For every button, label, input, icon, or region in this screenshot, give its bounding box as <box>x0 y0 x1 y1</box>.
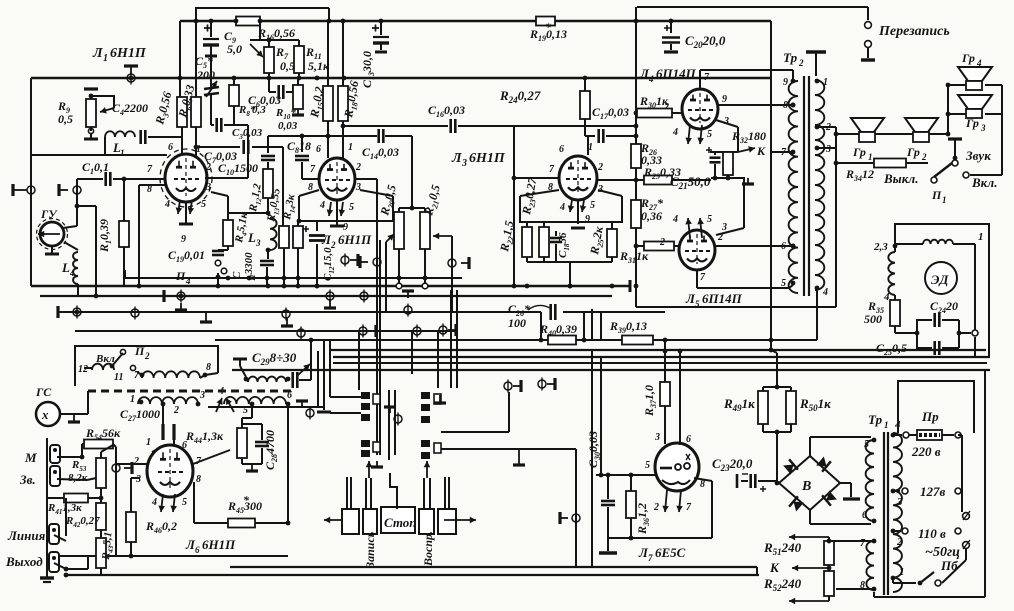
oscillator right verticals <box>317 351 319 407</box>
wire x665 to R37 <box>664 340 666 382</box>
svg-text:3: 3 <box>461 158 467 169</box>
wire y126 runs to x636 <box>514 125 636 127</box>
svg-text:C42200: C42200 <box>112 101 148 117</box>
resistor R3 0,56 <box>179 21 181 97</box>
svg-text:*: * <box>545 20 552 34</box>
svg-text:6Е5С: 6Е5С <box>655 545 686 560</box>
speaker Gr3 <box>958 95 992 109</box>
svg-text:4: 4 <box>672 214 678 225</box>
resistor R12 1,2 <box>267 162 269 169</box>
svg-text:0,3: 0,3 <box>252 104 266 116</box>
svg-text:2,3: 2,3 <box>873 241 888 253</box>
svg-text:4: 4 <box>559 202 565 213</box>
wires from contacts to right <box>441 431 509 433</box>
svg-text:4: 4 <box>648 74 654 84</box>
svg-text:L: L <box>61 260 70 275</box>
speaker Gr1 <box>851 118 884 132</box>
cathode arrows L6 <box>161 494 163 512</box>
erase head GS <box>36 402 60 426</box>
wire L5 grid R31 <box>678 245 680 247</box>
resistor R50 1k <box>786 391 796 424</box>
speaker Gr4 <box>958 67 992 81</box>
wire Out jack wire <box>66 568 88 570</box>
tap 4 fuse Pr <box>891 433 896 438</box>
svg-text:5,0: 5,0 <box>227 42 242 56</box>
wire x514 down <box>513 178 515 286</box>
cathode arrows L3 <box>570 200 572 212</box>
svg-text:6: 6 <box>781 241 786 252</box>
bus junction dots <box>137 284 142 289</box>
motor box <box>895 224 989 357</box>
wire plate wire y178 to L3 <box>514 177 558 179</box>
svg-text:4: 4 <box>218 386 224 397</box>
resistor R25 2k <box>607 229 617 257</box>
motor winding horizontal <box>923 240 953 244</box>
node rail junctions <box>327 19 332 24</box>
resistor R41 1,3k <box>64 494 88 503</box>
jack Perezapis <box>865 22 872 29</box>
tube Л3 6Н1П <box>559 156 597 200</box>
resistor R23 0,27 <box>539 227 549 257</box>
tube Л6 6Н1П <box>147 445 193 497</box>
svg-text:C818: C818 <box>287 139 311 155</box>
motor ED circle <box>925 262 957 294</box>
svg-text:2: 2 <box>798 58 804 68</box>
resistor R36 1,2 <box>630 475 632 491</box>
svg-text:8: 8 <box>783 100 788 111</box>
svg-text:3: 3 <box>355 182 361 193</box>
Tr1 winding 5-6 <box>866 440 874 521</box>
resistor R40 0,39 <box>548 336 576 345</box>
tube Л1 6Н1П <box>165 154 207 202</box>
resistor R10 0,03 <box>297 78 299 85</box>
oscillator box <box>75 346 218 386</box>
wire bottom bus y575 <box>66 574 759 576</box>
pin9 stem L2 <box>336 200 338 226</box>
svg-text:5: 5 <box>349 202 354 213</box>
wire pin5 L7 <box>596 474 655 476</box>
capacitor C8 18 <box>301 136 303 152</box>
resistor R46 0,2 <box>131 477 140 479</box>
wire R54 right riser x116 <box>113 444 116 447</box>
switch bus verticals <box>376 179 378 455</box>
svg-text:4: 4 <box>185 276 191 286</box>
wire grid network R3 bottom <box>181 127 183 157</box>
capacitor C18 56 <box>555 231 557 236</box>
svg-text:6: 6 <box>168 142 173 153</box>
svg-text:1: 1 <box>146 437 151 448</box>
svg-text:9: 9 <box>783 77 788 88</box>
wire x288 up to tap6 <box>287 404 289 523</box>
svg-text:2: 2 <box>205 162 211 173</box>
bridge output wires <box>809 437 811 456</box>
pin9 stem L1 <box>185 202 187 224</box>
svg-text:5: 5 <box>201 199 206 210</box>
capacitor C16 0,03 <box>413 125 448 127</box>
wire L6 pin2 left <box>116 463 147 465</box>
svg-text:Л: Л <box>92 46 103 61</box>
wire Line jack riser <box>65 498 67 536</box>
svg-text:C1330,0: C1330,0 <box>360 51 376 88</box>
wire x680 down <box>678 349 683 354</box>
capacitor C1 0,1 <box>77 178 103 180</box>
wire rail y155 <box>31 154 167 156</box>
svg-text:Гр: Гр <box>961 51 975 65</box>
svg-text:4: 4 <box>672 127 678 138</box>
wire to bridge <box>776 432 778 483</box>
svg-text:3: 3 <box>654 432 660 443</box>
ground below C28 <box>251 464 253 471</box>
resistor R42 0,27 <box>96 503 106 530</box>
wire Tr2 pin4 down <box>816 290 818 340</box>
resistor R52 240 <box>824 571 834 596</box>
wire output box bottom y307 <box>636 306 836 308</box>
wire GU to riser <box>63 226 77 228</box>
inductor L3 <box>270 218 277 250</box>
cathode arrows L1 <box>178 200 180 214</box>
resistor R19 0,13 <box>536 17 555 26</box>
tap 3 <box>891 489 896 494</box>
power box right <box>984 370 986 597</box>
svg-text:Выкл.: Выкл. <box>883 171 918 186</box>
svg-text:C2320,0: C2320,0 <box>712 456 753 473</box>
resistor R27 0,36 <box>635 180 637 200</box>
wiper arrow R20 <box>386 234 394 242</box>
resistor R51 240 <box>824 541 834 565</box>
shield dashed line <box>88 390 292 393</box>
wire y126 screen feed <box>343 125 413 127</box>
potentiometer R9 0,5 <box>90 96 92 99</box>
tap 1 <box>891 576 896 581</box>
svg-text:2: 2 <box>144 351 150 361</box>
capacitor C28 4700 <box>242 423 262 425</box>
wire L2 plate to pair <box>355 178 377 180</box>
svg-text:2: 2 <box>133 456 139 467</box>
wire R9 tap to C4 <box>90 127 92 131</box>
resistor R14 3k <box>293 226 303 248</box>
svg-text:127в: 127в <box>920 484 946 499</box>
resistor R14b bottom connection <box>297 219 302 224</box>
ground/connector at C1 riser <box>76 179 78 226</box>
svg-text:5: 5 <box>781 278 786 289</box>
wire contacts to left <box>330 412 361 414</box>
svg-text:12: 12 <box>78 364 88 375</box>
svg-text:К: К <box>756 144 766 158</box>
resistor R53 8,2k <box>101 445 113 452</box>
resistor R21 0,5 <box>420 212 430 249</box>
svg-text:Звук: Звук <box>965 148 991 163</box>
svg-text:C30,03: C30,03 <box>232 127 263 141</box>
svg-text:500: 500 <box>864 312 882 326</box>
svg-text:8: 8 <box>700 479 705 490</box>
svg-text:C10,1: C10,1 <box>82 160 109 176</box>
cathode box L2 <box>299 196 393 221</box>
svg-text:100: 100 <box>508 316 526 330</box>
svg-text:C: C <box>231 271 243 279</box>
wire x777 R49 feed <box>771 350 777 353</box>
svg-text:0,36: 0,36 <box>641 209 662 223</box>
svg-text:1: 1 <box>868 152 873 162</box>
connector on pair x377 <box>373 258 381 266</box>
svg-text:5: 5 <box>645 460 650 471</box>
svg-text:x: x <box>41 407 49 422</box>
resistor R26 0,33 <box>631 144 641 168</box>
svg-text:1: 1 <box>899 566 905 578</box>
svg-text:Тр: Тр <box>868 412 883 427</box>
switch P1 <box>931 177 937 183</box>
svg-text:R52240: R52240 <box>763 576 802 593</box>
svg-text:0,03: 0,03 <box>278 120 298 132</box>
svg-text:М: М <box>24 450 37 465</box>
L7 pin8 loop <box>694 478 712 481</box>
Tr1 winding 7-8 <box>866 541 874 590</box>
svg-text:П: П <box>175 269 186 283</box>
resistor R37 1,0 <box>660 382 670 406</box>
svg-text:3: 3 <box>721 222 727 233</box>
resistor R31 1k <box>644 242 674 251</box>
svg-text:5: 5 <box>590 200 595 211</box>
svg-text:9: 9 <box>585 214 590 225</box>
resistor R16 0,56 <box>236 17 260 26</box>
ground bus end <box>629 280 632 292</box>
wire left rail x31 <box>30 78 32 286</box>
capacitor C23 20,0 <box>736 474 739 488</box>
Tr2 taps left <box>791 79 796 84</box>
speaker Gr2 <box>905 118 938 132</box>
wire bus y370 <box>232 369 990 371</box>
svg-text:Запись: Запись <box>363 531 377 569</box>
jack Zv <box>50 466 60 486</box>
svg-text:4: 4 <box>822 287 828 298</box>
svg-text:Перезапись: Перезапись <box>878 24 950 39</box>
svg-text:R32180: R32180 <box>731 129 766 145</box>
svg-text:Гр: Гр <box>965 116 979 130</box>
electrolytic C12 15,0 <box>316 221 318 231</box>
resistor R22 1,5 <box>522 227 532 257</box>
resistor R24 0,27 <box>584 78 586 91</box>
svg-text:3: 3 <box>980 123 986 133</box>
wire x592 x601 upper <box>591 309 593 340</box>
wiper arrow R21 <box>433 235 452 237</box>
svg-text:6: 6 <box>316 144 321 155</box>
mains feed step <box>898 381 974 433</box>
svg-text:3: 3 <box>825 144 831 155</box>
push buttons <box>324 519 352 521</box>
switch contacts right stack <box>421 392 430 399</box>
svg-text:2: 2 <box>597 162 603 173</box>
resistor R44 1,3k <box>237 428 247 458</box>
capacitor C30 0,03 <box>606 473 611 478</box>
switch Pb <box>918 581 923 586</box>
resistor R4 5,1k <box>228 212 268 214</box>
resistor R13 0,55 <box>279 226 289 248</box>
electrolytic C9 5,0 <box>209 19 214 24</box>
svg-text:C2150,0: C2150,0 <box>670 174 711 191</box>
wire plate rail y136 <box>268 135 377 137</box>
cathode box L3 <box>520 196 622 222</box>
svg-text:ГС: ГС <box>35 385 52 399</box>
svg-text:П: П <box>931 188 942 202</box>
svg-text:П: П <box>134 344 145 358</box>
jack Out <box>49 552 59 572</box>
svg-text:R400,39: R400,39 <box>539 322 577 338</box>
svg-text:0,5: 0,5 <box>280 59 295 73</box>
wire cathode to pin3 <box>227 196 229 213</box>
resistor R18 0,56 <box>342 21 344 86</box>
wire Tr2 pin3 down to R34 <box>817 147 836 149</box>
capacitor C14 0,03 <box>377 129 380 143</box>
svg-text:6: 6 <box>195 545 200 555</box>
power wires right <box>961 435 963 512</box>
svg-text:3: 3 <box>255 238 261 248</box>
inductor L4 <box>64 242 78 250</box>
wire screen rail y78 <box>31 77 771 79</box>
resistor R8 0,3 <box>232 76 237 81</box>
wire bus y340 <box>215 339 548 341</box>
svg-text:110 в: 110 в <box>918 526 946 541</box>
svg-text:6Н1П: 6Н1П <box>469 151 506 166</box>
svg-text:R411,3к: R411,3к <box>47 502 82 516</box>
svg-text:~50гц: ~50гц <box>925 545 960 560</box>
svg-text:ЭД: ЭД <box>931 272 949 287</box>
svg-text:4: 4 <box>151 497 157 508</box>
svg-text:Гр: Гр <box>906 145 920 159</box>
svg-text:3: 3 <box>896 496 903 508</box>
left jack bus <box>46 438 48 578</box>
resistor R49 1k <box>758 391 768 424</box>
pin9 stem L3 <box>577 200 579 224</box>
svg-text:C284700: C284700 <box>263 430 279 470</box>
resistor R11 5,1k <box>298 40 300 46</box>
wire x576 down <box>575 449 577 567</box>
svg-text:1: 1 <box>978 231 984 243</box>
wire top box output stage <box>637 6 868 8</box>
svg-text:1: 1 <box>120 148 125 158</box>
svg-text:1: 1 <box>884 420 889 430</box>
svg-text:Выход: Выход <box>5 554 43 569</box>
cathode arrows L2 <box>329 202 331 216</box>
svg-text:6: 6 <box>862 510 867 521</box>
svg-text:Л: Л <box>451 151 462 166</box>
resistor R30 1k <box>634 111 639 116</box>
svg-text:8: 8 <box>206 362 211 373</box>
svg-text:5: 5 <box>864 439 869 450</box>
svg-text:R420,27: R420,27 <box>65 515 100 529</box>
svg-text:C300,03: C300,03 <box>586 431 602 468</box>
svg-text:R441,3к: R441,3к <box>185 429 224 445</box>
wire box corner right <box>328 8 330 21</box>
cathode arrows L4 <box>688 125 690 144</box>
R49 R50 bars <box>763 386 791 388</box>
svg-text:Тр: Тр <box>783 50 798 65</box>
Tr2 secondary winding <box>815 80 824 290</box>
svg-text:C271000: C271000 <box>120 407 160 423</box>
wire bus y331 <box>75 330 457 332</box>
svg-text:R390,13: R390,13 <box>609 319 647 335</box>
resistor R35 500 <box>890 300 900 326</box>
ground below C30 <box>607 538 609 551</box>
resistor R54 56k <box>84 440 113 449</box>
svg-text:2: 2 <box>896 536 903 548</box>
svg-text:R51240: R51240 <box>763 540 802 557</box>
wire C14 down to phase splitter <box>411 136 413 208</box>
svg-text:L: L <box>247 230 256 245</box>
cathode network bottom bar <box>527 261 612 263</box>
wire Tr2 pin2 to speakers <box>817 126 836 128</box>
ground below GU <box>51 246 53 254</box>
svg-text:5: 5 <box>182 497 187 508</box>
svg-text:9: 9 <box>722 94 727 105</box>
grid top cap connector <box>130 66 132 75</box>
svg-text:0,5: 0,5 <box>58 112 73 126</box>
svg-text:6П14П: 6П14П <box>702 291 743 306</box>
motor phase caps C24 C25 <box>895 332 917 334</box>
pin7 stem L5 <box>696 270 698 288</box>
svg-text:2: 2 <box>659 237 665 248</box>
svg-text:C2020,0: C2020,0 <box>685 33 726 50</box>
wire bottom bus y567 <box>230 566 757 568</box>
tube Л4 6П14П <box>682 89 718 129</box>
button stems <box>346 477 348 509</box>
motor winding vertical <box>888 252 895 295</box>
svg-text:5: 5 <box>707 214 712 225</box>
Tr1 primary <box>893 433 902 592</box>
svg-text:200: 200 <box>196 68 215 82</box>
svg-text:C160,03: C160,03 <box>428 103 465 119</box>
wire L6 grid to C27 <box>152 448 160 452</box>
svg-text:Вкл.: Вкл. <box>971 175 997 190</box>
svg-text:6: 6 <box>686 434 691 445</box>
oscillator coil upper <box>84 367 92 369</box>
resistor R7 0,5 with wiper <box>259 21 261 40</box>
bridge diodes <box>783 465 793 475</box>
power terminals <box>963 513 970 520</box>
svg-text:1: 1 <box>942 195 947 205</box>
contacts connectors <box>306 409 314 417</box>
wire bus y350 <box>330 349 986 351</box>
wire bus y357 <box>333 356 990 358</box>
wire grid L3 <box>587 136 589 155</box>
svg-text:6Н1П: 6Н1П <box>202 537 236 552</box>
svg-text:6: 6 <box>559 144 564 155</box>
svg-text:3: 3 <box>205 182 211 193</box>
wire L6 pin7 to R44 <box>193 450 230 464</box>
resistor R39 0,13 <box>622 336 653 345</box>
wire plate L1 to C7 <box>205 177 248 179</box>
wire L5 pin3 up <box>743 178 745 228</box>
svg-text:5: 5 <box>707 129 712 140</box>
svg-text:R240,27: R240,27 <box>499 88 541 105</box>
C29 trimmer <box>233 358 247 361</box>
pin7 wire L4 to Tr2 pin9 <box>699 70 701 89</box>
wire L4 pin9 to Tr2 pin8 <box>717 104 793 106</box>
svg-text:4: 4 <box>883 291 890 303</box>
resistor R45 300 <box>193 482 195 523</box>
svg-text:4: 4 <box>976 58 982 68</box>
connector below R21 wiper <box>448 259 456 267</box>
capacitor C17 0,03 <box>584 119 586 136</box>
svg-text:8,2к: 8,2к <box>68 472 88 484</box>
capacitor C7 0,03 <box>242 140 245 154</box>
svg-text:В: В <box>801 479 811 494</box>
svg-text:C298÷30: C298÷30 <box>252 350 297 367</box>
svg-text:ГУ: ГУ <box>40 207 58 221</box>
wire Tr2 pin5 wire <box>789 285 793 288</box>
svg-text:C170,03: C170,03 <box>592 105 629 121</box>
Tr2 core clamp <box>806 50 826 53</box>
resistor R29 0,33 <box>598 179 644 181</box>
wire bus ends vertical <box>756 567 758 575</box>
